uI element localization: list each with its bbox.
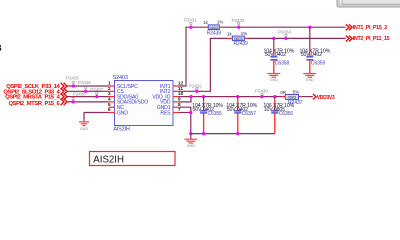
- svg-text:GND: GND: [270, 78, 278, 82]
- svg-text:RES: RES: [160, 110, 171, 116]
- svg-text:C6358: C6358: [275, 61, 290, 67]
- svg-text:1: 1: [108, 81, 111, 87]
- svg-text:INT2_PI_P11_15: INT2_PI_P11_15: [353, 36, 390, 42]
- svg-text:GND: GND: [187, 144, 195, 148]
- testpoint P2437: [90, 87, 103, 98]
- wire SCLK to pin1: [67, 85, 108, 87]
- wire INT1 rail to port: [222, 26, 345, 28]
- port INT2_PI_P11_15: [346, 36, 390, 43]
- svg-text:S2403: S2403: [113, 75, 128, 81]
- power port VDD3V3: [313, 94, 335, 101]
- pin stubs left 1-6: [108, 86, 114, 113]
- svg-text:QSPI2_MTSR_P15_6: QSPI2_MTSR_P15_6: [8, 101, 60, 107]
- wire MRSTA to pin3: [67, 96, 108, 98]
- testpoint P2436: [78, 80, 91, 93]
- svg-text:GND: GND: [117, 110, 128, 116]
- svg-text:1%: 1%: [217, 19, 223, 24]
- wire R2437 to port: [302, 96, 313, 98]
- svg-text:C6356: C6356: [279, 111, 294, 117]
- wire pin12 INT1: [178, 27, 205, 86]
- svg-text:50V 0402: 50V 0402: [265, 52, 286, 58]
- capacitor C6355: [192, 95, 223, 134]
- resistor R2437: [280, 90, 302, 107]
- wire GND bus: [191, 133, 275, 135]
- capacitor C6356: [263, 95, 294, 134]
- testpoint P2438: [72, 92, 87, 104]
- svg-text:4: 4: [108, 97, 111, 103]
- ground pin6: [79, 122, 89, 131]
- svg-text:C6359: C6359: [311, 61, 326, 67]
- svg-text:AIS2IH: AIS2IH: [113, 126, 130, 132]
- svg-text:P2430: P2430: [255, 88, 268, 93]
- testpoint P2433: [232, 18, 245, 29]
- svg-text:AIS2IH: AIS2IH: [93, 154, 124, 165]
- testpoint P2435: [66, 76, 79, 88]
- wire pin7 to pin8 vertical: [178, 112, 191, 114]
- junction bus C6355: [202, 132, 205, 135]
- svg-text:GND: GND: [80, 127, 89, 131]
- ground bus: [184, 134, 197, 149]
- svg-text:5%: 5%: [293, 90, 299, 95]
- svg-text:R2439: R2439: [234, 41, 249, 47]
- svg-text:1%: 1%: [241, 31, 247, 36]
- title box AIS2IH: [90, 152, 176, 166]
- pin numbers right: [178, 81, 184, 114]
- wire pin9 to rail: [178, 97, 191, 102]
- capacitor C6357: [226, 95, 257, 134]
- svg-text:GND: GND: [306, 78, 314, 82]
- svg-text:5: 5: [108, 102, 111, 108]
- svg-text:P2434: P2434: [278, 30, 291, 35]
- svg-text:P2433: P2433: [232, 18, 245, 23]
- svg-text:6: 6: [108, 107, 111, 113]
- capacitor C6358: [264, 37, 295, 73]
- pin numbers left: [108, 81, 111, 114]
- pin stubs right 12-7: [173, 86, 179, 113]
- ground under C6359: [303, 74, 316, 83]
- port QSPI2_SCLK_P33_14: [6, 83, 67, 90]
- svg-text:P2436: P2436: [78, 80, 91, 85]
- wire pin6 to ground: [84, 113, 108, 122]
- resistor R2439: [227, 31, 249, 47]
- svg-text:0603: 0603: [288, 95, 297, 100]
- svg-text:50V 0402: 50V 0402: [301, 52, 322, 58]
- wire SLSO12 to pin2: [67, 90, 108, 92]
- svg-text:B: B: [0, 43, 2, 53]
- testpoint P2432: [189, 83, 202, 93]
- svg-text:R2438: R2438: [207, 30, 222, 36]
- port QSPI2_SLSO12_P33_4: [3, 88, 66, 95]
- wire INT2 rail to port: [249, 37, 346, 39]
- svg-text:P2437: P2437: [90, 87, 103, 92]
- svg-text:VDD3V3: VDD3V3: [317, 95, 335, 101]
- sheet thumbnail box top-right: [337, 0, 400, 7]
- svg-text:0603: 0603: [210, 25, 219, 30]
- svg-text:P2431: P2431: [184, 17, 197, 22]
- svg-text:0R: 0R: [280, 90, 286, 95]
- svg-text:C6357: C6357: [242, 111, 257, 117]
- svg-text:QSPI2_MRSTA_P15_4: QSPI2_MRSTA_P15_4: [5, 95, 60, 101]
- resistor R2438: [203, 19, 223, 36]
- capacitor C6359: [300, 26, 331, 74]
- junction pin9/rail: [189, 95, 192, 98]
- svg-text:INT1_PI_P15_2: INT1_PI_P15_2: [353, 25, 388, 31]
- svg-text:1k: 1k: [227, 31, 232, 36]
- testpoint P2434: [278, 30, 291, 40]
- wire pin11 INT2: [178, 38, 227, 91]
- port INT1_PI_P15_2: [346, 24, 387, 31]
- svg-text:C6355: C6355: [208, 111, 223, 117]
- testpoint P2431: [184, 17, 197, 29]
- IC S2403 AIS2IH: [113, 75, 173, 132]
- wire MTSR to pin4: [67, 101, 108, 103]
- port QSPI2_MTSR_P15_6: [8, 99, 66, 107]
- wire VDD rail pin10: [178, 96, 282, 98]
- svg-text:1k: 1k: [203, 20, 208, 25]
- testpoint P2430: [255, 88, 268, 98]
- junction bus C6357: [236, 132, 239, 135]
- junction bus left: [189, 132, 192, 135]
- wire pin8 down to bus: [178, 107, 191, 133]
- svg-text:P2432: P2432: [189, 83, 202, 88]
- ground under C6358: [267, 74, 280, 83]
- port QSPI2_MRSTA_P15_4: [5, 93, 67, 100]
- svg-text:P2438: P2438: [73, 92, 86, 97]
- svg-text:3: 3: [108, 91, 111, 97]
- junction pin7: [189, 111, 192, 114]
- svg-text:2: 2: [108, 86, 111, 92]
